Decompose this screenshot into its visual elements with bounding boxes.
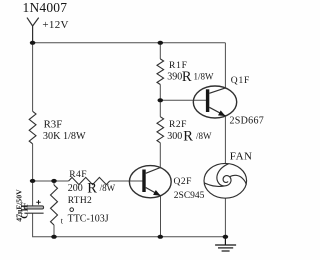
svg-text:/8W: /8W xyxy=(100,183,116,193)
wire thermistor top stem xyxy=(53,181,55,185)
svg-text:390: 390 xyxy=(167,72,182,83)
wire left junction to R4F xyxy=(33,180,69,182)
capacitor C1F plus sign xyxy=(36,200,40,204)
svg-text:C1F: C1F xyxy=(19,202,29,219)
thermistor RTH2 xyxy=(51,185,58,225)
svg-text:Q1F: Q1F xyxy=(231,76,250,86)
capacitor C1F bottom plate xyxy=(24,212,43,214)
svg-text:R3F: R3F xyxy=(44,118,63,130)
junction dot xyxy=(30,41,36,45)
svg-text:1/8W: 1/8W xyxy=(194,72,215,82)
value 200R /8W xyxy=(68,181,116,197)
svg-text:R: R xyxy=(182,69,192,85)
svg-text:R4F: R4F xyxy=(69,170,87,180)
transistor Q1F xyxy=(193,86,236,118)
resistor R1F xyxy=(157,59,164,85)
wire top rail xyxy=(33,42,226,44)
wire FAN to ground rail xyxy=(224,198,226,237)
wire Q1F emitter to FAN xyxy=(224,116,226,164)
+12V supply input terminal xyxy=(27,18,39,43)
wire thermistor bottom stem xyxy=(53,225,55,237)
wire R2F to Q2F collector xyxy=(159,143,161,168)
wire middle column top xyxy=(159,43,161,59)
svg-text:2SD667: 2SD667 xyxy=(230,115,265,126)
junction dot xyxy=(158,98,164,102)
wire left rail upper xyxy=(32,43,34,112)
degree mark xyxy=(70,208,74,212)
svg-text:TTC-103J: TTC-103J xyxy=(68,213,109,224)
svg-text:200: 200 xyxy=(68,183,83,194)
svg-text:FAN: FAN xyxy=(230,150,253,162)
junction dot xyxy=(158,235,164,239)
value 300R /8W xyxy=(167,129,212,145)
junction dot xyxy=(51,235,57,239)
resistor R3F xyxy=(29,111,36,144)
wire middle column R1F-R2F xyxy=(159,85,161,117)
junction dot xyxy=(51,179,57,183)
junction dot xyxy=(30,179,36,183)
junction dot xyxy=(158,41,164,45)
wire left rail below R3F xyxy=(32,144,34,206)
wire Q2F emitter to ground rail xyxy=(160,196,162,237)
svg-text:R: R xyxy=(87,181,97,197)
transistor Q2F xyxy=(129,166,171,198)
svg-text:1N4007: 1N4007 xyxy=(23,0,68,15)
svg-text:/8W: /8W xyxy=(196,131,212,141)
svg-text:2SC945: 2SC945 xyxy=(174,191,205,201)
resistor R4F xyxy=(69,177,110,184)
wire R4F to Q2F base xyxy=(110,180,143,182)
fan motor M1 xyxy=(204,163,247,198)
resistor R2F xyxy=(157,117,164,143)
svg-text:30K 1/8W: 30K 1/8W xyxy=(43,131,86,142)
svg-text:+12V: +12V xyxy=(42,19,68,31)
wire cap bottom to ground rail xyxy=(33,213,226,237)
wire Q1F base xyxy=(160,99,206,101)
wire right column to Q1F collector xyxy=(224,43,226,88)
svg-text:Q2F: Q2F xyxy=(174,177,192,187)
junction dot xyxy=(223,235,229,239)
svg-text:R: R xyxy=(183,129,193,145)
svg-text:300: 300 xyxy=(167,131,182,142)
ground xyxy=(215,237,236,251)
capacitor C1F top plate xyxy=(24,206,43,209)
svg-text:RTH2: RTH2 xyxy=(68,196,92,206)
value 390R 1/8W xyxy=(167,69,214,85)
